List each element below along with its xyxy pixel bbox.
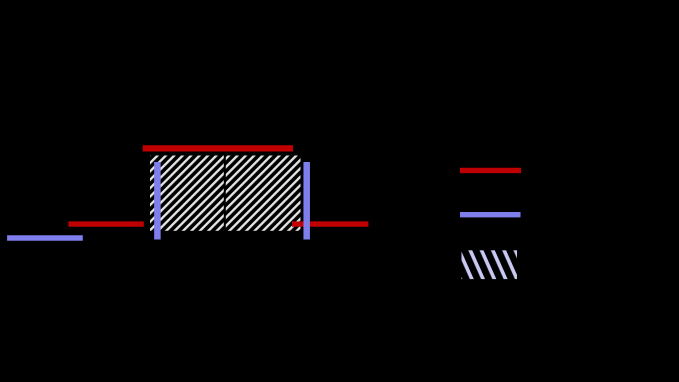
red lower-left segment	[68, 221, 143, 226]
blue vertical bar left	[154, 162, 161, 240]
hatched region left half	[150, 156, 224, 231]
legend blue line	[460, 212, 521, 217]
legend hatch patch	[462, 250, 518, 279]
red upper-bound top segment	[143, 145, 293, 151]
blue vertical bar right	[303, 162, 310, 240]
blue bottom-left segment	[7, 235, 83, 240]
red lower-right segment	[292, 221, 368, 226]
hatched region right half	[226, 156, 301, 231]
legend red line	[460, 168, 521, 173]
